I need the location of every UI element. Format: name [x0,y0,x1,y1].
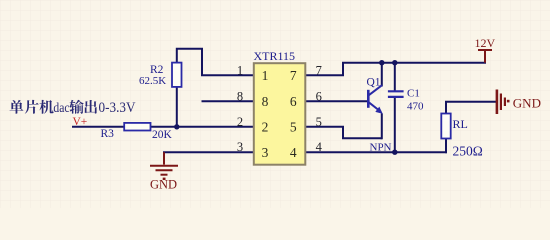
wire R2 bottom lead [176,87,178,127]
svg-text:7: 7 [290,68,297,83]
label MCU dac output annotation [10,99,137,116]
resistor R3 [124,123,150,131]
svg-text:6: 6 [316,89,322,103]
wire pin 7 to 12V rail [305,63,485,76]
svg-text:5: 5 [290,120,297,135]
wire collector vertical [381,63,383,86]
wire pin 5 jog to emitter [305,127,381,139]
wire C1 bottom lead [394,98,396,152]
svg-text:RL: RL [453,117,468,131]
svg-text:8: 8 [262,94,269,109]
svg-text:C1: C1 [407,87,420,99]
ground GND left symbol [150,152,178,175]
wire junction to pin 2 [177,126,254,128]
wire pin 3 to ground [164,151,254,153]
svg-text:4: 4 [290,145,297,160]
resistor R2 [172,63,182,87]
svg-text:GND: GND [150,178,177,192]
svg-text:62.5K: 62.5K [139,75,166,87]
node junction C1/rail [392,60,397,65]
node junction C1/bottom rail [392,150,397,155]
svg-text:0-3.3V: 0-3.3V [99,99,137,116]
wire pin 8 stub [203,100,255,102]
svg-text:1: 1 [262,68,269,83]
svg-text:NPN: NPN [370,142,392,154]
svg-text:470: 470 [407,101,424,113]
svg-text:5: 5 [316,115,322,129]
transistor Q1 [368,85,382,111]
svg-text:1: 1 [237,63,243,77]
svg-text:XTR115: XTR115 [254,49,296,63]
wire pin 6 to base [305,100,368,102]
svg-text:250Ω: 250Ω [453,143,483,158]
svg-text:8: 8 [237,89,243,103]
wire emitter vertical [381,115,383,139]
svg-text:V+: V+ [73,116,88,128]
svg-text:6: 6 [290,94,297,109]
power 12V symbol [478,50,492,63]
svg-text:dac: dac [53,100,69,115]
svg-text:Q1: Q1 [367,76,381,88]
ground GND right symbol [497,90,505,115]
wire RL top lead and GND branch [446,102,497,114]
wire R3 to junction [151,126,178,128]
wire pin 4 bottom rail [305,151,446,153]
svg-text:20K: 20K [152,129,173,141]
svg-text:2: 2 [262,120,269,135]
svg-text:2: 2 [237,115,243,129]
svg-text:7: 7 [316,63,322,77]
IC U1 XTR115 body [254,63,305,165]
wire V+ net [73,126,125,128]
node junction collector/rail [379,60,384,65]
wire C1 top lead [394,63,396,91]
svg-text:4: 4 [316,140,323,154]
svg-text:R3: R3 [101,128,115,140]
resistor RL [441,114,450,139]
wire R2 top to pin 1 [177,49,254,76]
wire RL bottom lead [445,139,447,153]
capacitor C1 [388,91,404,97]
svg-text:3: 3 [237,140,243,154]
svg-text:GND: GND [513,96,541,111]
node junction R2/R3/pin2 [174,124,179,129]
svg-text:3: 3 [262,145,269,160]
svg-text:12V: 12V [475,36,496,50]
